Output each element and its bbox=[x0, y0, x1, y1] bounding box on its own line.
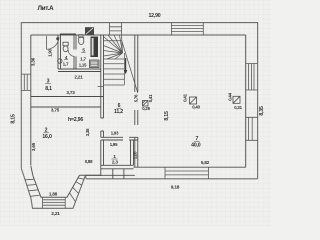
window right wall upper bbox=[246, 64, 258, 91]
window right wall lower bbox=[246, 117, 258, 140]
svg-text:1,95: 1,95 bbox=[110, 142, 118, 147]
window bay right diagonal bbox=[70, 178, 85, 202]
bottom strip inner face room2/1 bbox=[80, 174, 101, 176]
svg-text:1,15: 1,15 bbox=[79, 63, 87, 68]
washbasin room5 bbox=[79, 35, 84, 45]
room7 bottom wall inner bbox=[134, 166, 246, 168]
svg-text:11,2: 11,2 bbox=[114, 109, 123, 115]
svg-text:8,15: 8,15 bbox=[11, 114, 17, 124]
fan winders bbox=[104, 35, 123, 59]
door leaf dot bbox=[56, 37, 59, 40]
svg-text:3,65: 3,65 bbox=[31, 142, 36, 151]
lower flight treads bbox=[104, 59, 125, 79]
block top edge dark strip bbox=[60, 33, 76, 35]
svg-text:1,7: 1,7 bbox=[80, 57, 86, 62]
bay window outer contour bbox=[21, 169, 86, 209]
window bay left diagonal bbox=[25, 179, 40, 196]
svg-text:0,31: 0,31 bbox=[234, 105, 242, 110]
window bay bottom bbox=[43, 197, 66, 208]
svg-text:12,90: 12,90 bbox=[149, 13, 161, 19]
top wall inner face bbox=[31, 34, 246, 36]
stair direction arrow bbox=[124, 58, 127, 74]
svg-text:0,29: 0,29 bbox=[142, 106, 150, 111]
svg-text:3,36: 3,36 bbox=[31, 57, 36, 66]
svg-text:40,0: 40,0 bbox=[191, 142, 201, 148]
svg-text:3,73: 3,73 bbox=[66, 90, 75, 95]
svg-text:2,21: 2,21 bbox=[74, 74, 83, 79]
pier A (stair wall end) bbox=[143, 101, 149, 107]
svg-text:2,3: 2,3 bbox=[112, 160, 118, 165]
svg-text:0,41: 0,41 bbox=[183, 93, 188, 101]
svg-text:3,75: 3,75 bbox=[51, 107, 60, 112]
bathroom block walls bbox=[58, 35, 101, 72]
svg-text:8,35: 8,35 bbox=[259, 106, 265, 116]
svg-text:8,15: 8,15 bbox=[164, 111, 170, 121]
svg-text:0,44: 0,44 bbox=[228, 92, 233, 100]
outer contour of building bbox=[21, 23, 257, 209]
divider room4/5 bbox=[74, 35, 76, 69]
door arc room3 entry bbox=[47, 36, 60, 49]
bottom outer wall band below rooms2/1 bbox=[86, 169, 135, 179]
svg-text:h=2,96: h=2,96 bbox=[68, 117, 83, 123]
svg-text:0,88: 0,88 bbox=[85, 159, 93, 164]
window room7 bottom bbox=[165, 167, 209, 179]
porch jambs below room1 bbox=[113, 169, 124, 179]
staircase bbox=[98, 35, 138, 93]
window top wall right bbox=[171, 23, 203, 35]
svg-text:1,88: 1,88 bbox=[49, 191, 58, 196]
stringer bbox=[123, 53, 125, 85]
window left wall bbox=[21, 74, 31, 90]
inner wall faces bbox=[31, 35, 246, 197]
small circle symbol room3 bbox=[58, 59, 62, 63]
svg-text:9,18: 9,18 bbox=[171, 185, 180, 191]
svg-text:1,20: 1,20 bbox=[132, 151, 137, 159]
landing edge bbox=[98, 85, 125, 87]
bay window inner face bbox=[31, 166, 80, 197]
toilet room4 bbox=[63, 42, 68, 51]
long diagonal bbox=[122, 40, 138, 93]
door arc room4 bbox=[68, 50, 74, 56]
pier C (right) bbox=[233, 96, 240, 103]
svg-text:5,82: 5,82 bbox=[201, 160, 210, 165]
chimney flue in top wall above room5 bbox=[85, 27, 94, 35]
room1 bottom wall bbox=[101, 165, 134, 169]
svg-text:5,76: 5,76 bbox=[134, 94, 139, 102]
svg-text:1,7: 1,7 bbox=[63, 62, 69, 67]
full width treads bbox=[104, 40, 122, 42]
room1 right wall bbox=[131, 140, 134, 165]
svg-text:16,0: 16,0 bbox=[42, 134, 52, 140]
wall room1 top (1,93) bbox=[101, 137, 138, 169]
svg-text:1,90: 1,90 bbox=[48, 48, 53, 56]
block left wall bbox=[58, 35, 61, 69]
svg-text:0,41: 0,41 bbox=[148, 94, 153, 102]
right wall inner face bbox=[245, 35, 247, 167]
svg-text:0,40: 0,40 bbox=[192, 104, 200, 109]
svg-text:2,21: 2,21 bbox=[51, 211, 60, 217]
winder inner edge bbox=[122, 35, 123, 53]
window top wall left bbox=[110, 23, 122, 35]
wall room3/room2 bbox=[31, 97, 104, 108]
svg-text:3,38: 3,38 bbox=[85, 128, 90, 136]
svg-text:1,93: 1,93 bbox=[111, 130, 119, 135]
svg-text:Лит.А: Лит.А bbox=[38, 5, 55, 12]
svg-text:8,1: 8,1 bbox=[45, 86, 52, 92]
bath/flue dark shaft room5 bbox=[91, 37, 99, 58]
wall hall left (x=101-103.5) bbox=[101, 35, 104, 176]
wall hall right / room6-7 (x=134.8-137.8) bbox=[135, 35, 138, 167]
block bottom wall bbox=[58, 69, 101, 72]
pier B (middle) bbox=[190, 97, 197, 104]
paper background bbox=[0, 0, 271, 226]
boiler hatched box room5 bbox=[90, 60, 100, 68]
left wall inner face bbox=[30, 35, 32, 166]
